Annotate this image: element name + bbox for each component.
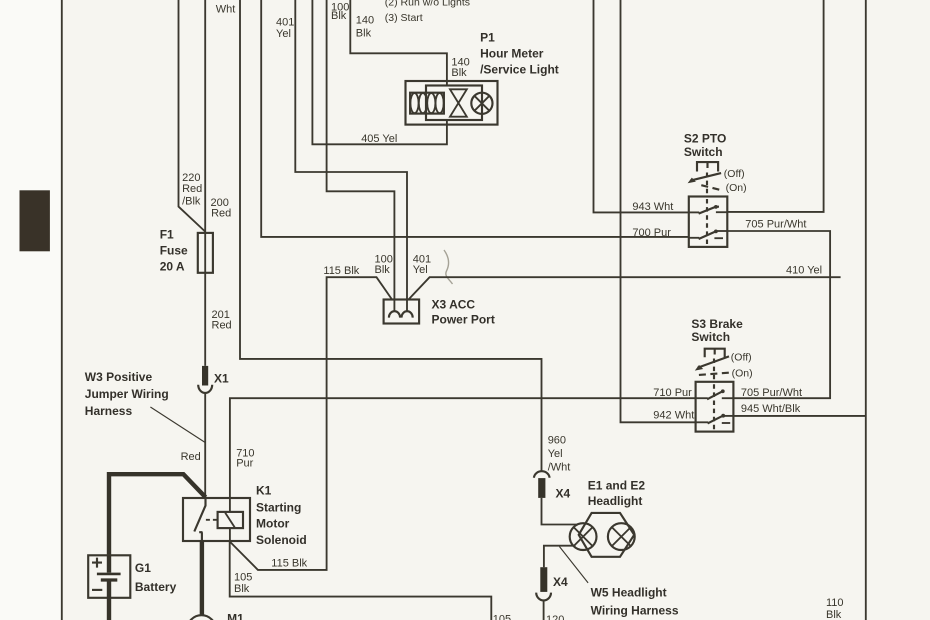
svg-text:Red: Red xyxy=(212,320,232,332)
svg-text:710 Pur: 710 Pur xyxy=(653,387,692,399)
S2 bottom contact dot xyxy=(714,230,718,234)
S3 actuator dashed stem xyxy=(713,359,715,382)
K1 starting motor solenoid box xyxy=(183,498,250,541)
svg-text:960: 960 xyxy=(548,434,566,446)
svg-text:Hour Meter: Hour Meter xyxy=(480,46,544,60)
wire 710 Pur (long run from K1 to S3) xyxy=(230,398,696,498)
svg-text:Yel: Yel xyxy=(276,28,291,40)
svg-text:945 Wht/Blk: 945 Wht/Blk xyxy=(741,403,801,415)
svg-text:G1: G1 xyxy=(135,561,151,575)
svg-text:105: 105 xyxy=(234,572,252,584)
svg-text:X1: X1 xyxy=(214,372,229,386)
pen scribble artifact xyxy=(444,250,453,284)
leader line W3 harness xyxy=(150,407,205,443)
svg-text:X4: X4 xyxy=(556,486,571,500)
S2 bottom contact right lead xyxy=(716,230,727,232)
wire 401 Yel (from top, jog right, down to X3) xyxy=(295,0,407,311)
S2 actuator lever dashed (On) xyxy=(701,185,721,190)
svg-text:Yel: Yel xyxy=(548,448,563,460)
S3 actuator lever solid (Off) xyxy=(698,356,729,367)
wire 110 Blk (full height at right) xyxy=(865,0,867,620)
svg-text:X3 ACC: X3 ACC xyxy=(432,298,476,312)
svg-text:(On): (On) xyxy=(732,368,753,380)
wire 945 Wht/Blk (S3 right to 110 Blk line) xyxy=(733,415,865,417)
svg-text:/Service Light: /Service Light xyxy=(480,62,559,76)
svg-text:Red: Red xyxy=(181,451,201,463)
binder mark (black rectangle) xyxy=(20,190,50,251)
headlight lamp E2 circle xyxy=(608,523,635,550)
svg-text:Harness: Harness xyxy=(85,404,133,418)
leader line W5 harness xyxy=(559,547,588,583)
svg-text:M1: M1 xyxy=(227,611,244,620)
svg-text:Wiring Harness: Wiring Harness xyxy=(591,604,679,618)
svg-text:Red: Red xyxy=(211,208,231,220)
K1 relay blade xyxy=(194,499,205,532)
connector X4 lower cup xyxy=(536,593,551,601)
wire 405 Yel (from top, right to hour meter bottom) xyxy=(312,0,447,144)
svg-text:(2) Run w/o Lights: (2) Run w/o Lights xyxy=(385,0,470,9)
svg-text:120: 120 xyxy=(546,614,564,620)
wire 943 Wht (from top, down, right into S2) xyxy=(594,0,689,212)
svg-text:(3) Start: (3) Start xyxy=(385,12,423,24)
svg-text:Blk: Blk xyxy=(375,264,391,276)
svg-text:/Wht: /Wht xyxy=(548,462,571,474)
service light lamp cross xyxy=(474,96,489,111)
S3 bottom contact stub xyxy=(722,422,730,424)
svg-text:Switch: Switch xyxy=(691,330,730,344)
svg-text:(On): (On) xyxy=(726,182,747,194)
wire 100 Blk (from top, jog right, down to X3) xyxy=(327,0,395,311)
S2 top contact right lead xyxy=(716,211,727,213)
S2 actuator lever solid (Off) xyxy=(691,173,722,181)
hourglass meter symbol top triangle xyxy=(450,89,467,103)
coil loop 1 xyxy=(410,93,418,113)
svg-text:W3 Positive: W3 Positive xyxy=(85,370,153,384)
S3 actuator bracket xyxy=(705,349,725,358)
svg-text:Blk: Blk xyxy=(234,583,250,595)
S2 top contact dot xyxy=(714,205,718,209)
svg-text:Power Port: Power Port xyxy=(432,312,495,326)
S3 top contact left lead xyxy=(696,397,708,399)
sheet border (left edge of schematic page) xyxy=(61,0,63,620)
S2 actuator dashed stem xyxy=(706,173,708,197)
svg-text:Solenoid: Solenoid xyxy=(256,533,307,547)
K1 coil box xyxy=(218,512,243,528)
svg-text:Jumper Wiring: Jumper Wiring xyxy=(85,387,169,401)
svg-text:Switch: Switch xyxy=(684,145,723,159)
S3 bottom contact left lead xyxy=(696,421,709,423)
svg-text:20 A: 20 A xyxy=(160,260,185,274)
svg-text:115 Blk: 115 Blk xyxy=(323,265,359,277)
S2 bottom contact left lead xyxy=(689,237,700,239)
svg-text:105: 105 xyxy=(493,614,511,620)
svg-text:(Off): (Off) xyxy=(731,351,752,363)
starter motor M1 circle (clipped at bottom) xyxy=(187,615,216,620)
wire 115 Blk (X3 down-left, across, down, to K1 coil) xyxy=(230,277,392,570)
S2 actuator bracket xyxy=(697,162,718,171)
connector X1 socket (cup) xyxy=(198,385,212,393)
S3 bottom contact right lead xyxy=(723,415,733,417)
svg-text:Pur: Pur xyxy=(236,458,253,470)
svg-text:P1: P1 xyxy=(480,30,495,44)
svg-text:Blk: Blk xyxy=(331,10,347,22)
wire 201 Red (fuse to X1) xyxy=(204,273,206,366)
wire Red (X1 to K1) xyxy=(204,393,206,498)
wire 705 Pur/Wht (S2 to S3 interlock) xyxy=(727,231,830,398)
battery long plate xyxy=(97,573,121,576)
svg-text:401: 401 xyxy=(276,17,294,29)
svg-text:(Off): (Off) xyxy=(724,168,745,180)
headlight lamp E1 circle xyxy=(570,523,597,550)
S3 lever arrowhead xyxy=(695,365,703,371)
svg-text:/Blk: /Blk xyxy=(182,196,201,208)
wire 960 Yel/Wht X4 to headlight xyxy=(542,498,578,525)
wire S2 top to ignition (up at right) xyxy=(727,0,823,212)
K1 fixed contact xyxy=(199,532,202,541)
S2 internal dashed line xyxy=(706,199,708,245)
svg-text:705 Pur/Wht: 705 Pur/Wht xyxy=(741,387,802,399)
headlight housing hexagon xyxy=(579,513,635,557)
hourglass meter symbol bottom triangle xyxy=(450,103,467,117)
svg-text:Motor: Motor xyxy=(256,516,290,530)
svg-text:943 Wht: 943 Wht xyxy=(632,201,673,213)
battery short plate xyxy=(101,578,118,581)
svg-text:140: 140 xyxy=(356,15,374,27)
S3 internal dashed line xyxy=(713,384,715,430)
fuse F1 20A xyxy=(198,233,213,273)
S3 top contact right lead xyxy=(722,397,734,399)
wire 120 (to page bottom) xyxy=(543,601,545,620)
svg-text:Wht: Wht xyxy=(216,4,236,16)
coil loop 4 xyxy=(436,93,444,113)
battery plus sign xyxy=(92,558,102,568)
coil loop 3 xyxy=(427,93,435,113)
X3 right pin cup xyxy=(402,311,413,317)
battery minus sign xyxy=(92,589,102,591)
wire 200 Red (from top into fuse) xyxy=(204,0,206,233)
connector X4 upper pin (bar) xyxy=(538,478,545,498)
thick cable K1 to starter M1 xyxy=(200,541,204,617)
svg-text:W5 Headlight: W5 Headlight xyxy=(591,586,667,600)
wire 140 Blk (from top, right, down to hour meter top) xyxy=(350,0,447,86)
svg-text:705 Pur/Wht: 705 Pur/Wht xyxy=(745,219,806,231)
svg-text:115 Blk: 115 Blk xyxy=(271,557,307,569)
battery internal stem xyxy=(107,555,111,598)
battery G1 box xyxy=(88,555,130,598)
connector X4 lower pin (bar) xyxy=(540,567,547,592)
svg-text:Headlight: Headlight xyxy=(588,494,643,508)
svg-text:405 Yel: 405 Yel xyxy=(361,133,397,145)
service light lamp circle xyxy=(471,93,492,114)
svg-text:Starting: Starting xyxy=(256,501,301,515)
S3 top contact blade xyxy=(707,391,723,399)
coil loop 2 xyxy=(419,93,427,113)
svg-text:F1: F1 xyxy=(160,227,174,241)
svg-text:Blk: Blk xyxy=(826,609,842,620)
S3 actuator lever dashed (On) xyxy=(699,373,729,375)
svg-text:Yel: Yel xyxy=(413,264,428,276)
svg-text:S3 Brake: S3 Brake xyxy=(691,317,743,331)
wire 220 Red/Blk (from top, diagonal into fuse top) xyxy=(179,0,206,232)
connector X1 pin (bar) xyxy=(202,366,208,386)
headlight lamp E1 cross xyxy=(574,527,593,546)
X3 ACC power port box xyxy=(384,300,420,324)
svg-text:S2 PTO: S2 PTO xyxy=(684,131,726,145)
K1 coil diagonal xyxy=(225,513,235,528)
hour meter P1 inner box xyxy=(426,86,482,121)
S3 brake switch box xyxy=(696,382,734,432)
S2 top contact left lead xyxy=(689,211,700,213)
page margin left of sheet border xyxy=(0,0,61,620)
K1 mechanical link dashed xyxy=(206,519,218,521)
svg-text:X4: X4 xyxy=(553,575,568,589)
svg-text:Battery: Battery xyxy=(135,580,177,594)
svg-text:E1 and E2: E1 and E2 xyxy=(588,479,646,493)
S2 bottom contact blade xyxy=(699,231,716,239)
S2 lever arrowhead xyxy=(688,178,696,184)
headlight lamp E2 cross xyxy=(612,527,631,546)
svg-text:942 Wht: 942 Wht xyxy=(653,409,694,421)
wire 942 Wht (from top, down, right into S3) xyxy=(621,0,696,422)
svg-text:700 Pur: 700 Pur xyxy=(632,227,671,239)
hour meter P1 outer box xyxy=(406,81,498,125)
svg-text:Blk: Blk xyxy=(356,28,372,40)
svg-text:Fuse: Fuse xyxy=(160,244,188,258)
K1 coil leads (710 Pur in, 115/105 Blk out) xyxy=(229,498,231,542)
wire 105 Blk (K1 coil down, across bottom, down off page) xyxy=(230,541,492,620)
wire through fuse F1 xyxy=(204,233,206,273)
S3 bottom contact dot xyxy=(721,414,725,418)
S3 bottom contact blade xyxy=(708,416,724,424)
hour meter coil box xyxy=(410,93,444,114)
wire 700 Pur (from top, across to S2 PTO switch) xyxy=(261,0,689,237)
svg-text:110: 110 xyxy=(826,597,844,609)
wire Wht / 960 Yel-Wht (from top, across, down to X4) xyxy=(240,0,542,471)
wire 410 Yel (X3 up-right, across to right side) xyxy=(409,277,841,299)
svg-text:Blk: Blk xyxy=(451,67,467,79)
S2 PTO switch box xyxy=(689,197,728,247)
thick battery positive cable to K1 xyxy=(109,474,206,556)
svg-text:410 Yel: 410 Yel xyxy=(786,264,822,276)
S3 top contact dot xyxy=(721,389,725,393)
S2 bottom contact stub xyxy=(714,237,723,239)
X3 left pin cup xyxy=(389,311,400,317)
thick battery negative cable (to page bottom) xyxy=(107,598,111,620)
connector X4 upper cup xyxy=(534,471,550,477)
wire headlight return to lower X4 xyxy=(544,546,576,568)
svg-text:K1: K1 xyxy=(256,484,272,498)
svg-text:Red: Red xyxy=(182,183,202,195)
S2 top contact blade xyxy=(699,207,719,214)
